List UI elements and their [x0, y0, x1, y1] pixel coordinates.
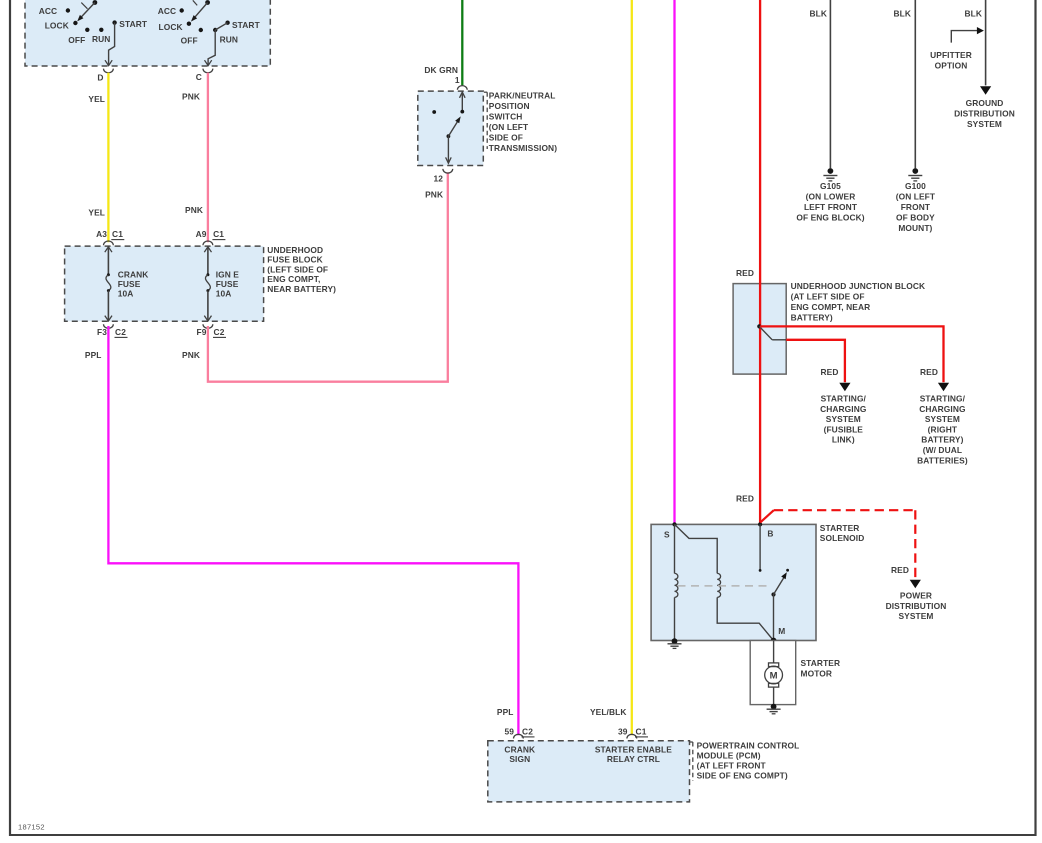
svg-text:SIDE OF ENG COMPT): SIDE OF ENG COMPT): [697, 770, 788, 780]
ground G100: [908, 168, 922, 181]
svg-text:CRANK: CRANK: [118, 270, 149, 280]
svg-text:(RIGHT: (RIGHT: [928, 424, 958, 434]
svg-text:DK GRN: DK GRN: [424, 65, 458, 75]
svg-text:(FUSIBLE: (FUSIBLE: [824, 424, 864, 434]
svg-text:START: START: [232, 20, 261, 30]
svg-text:(AT LEFT FRONT: (AT LEFT FRONT: [697, 760, 767, 770]
svg-text:FUSE: FUSE: [118, 279, 141, 289]
wire RED branch to starting/charging (fusible link): [786, 340, 850, 392]
svg-text:SOLENOID: SOLENOID: [820, 533, 865, 543]
svg-text:FRONT: FRONT: [901, 202, 931, 212]
ignition switch wafer 1 (ACC/LOCK/OFF/RUN/START): [39, 0, 148, 66]
svg-text:OF BODY: OF BODY: [896, 212, 935, 222]
svg-text:START: START: [119, 19, 148, 29]
label RED right branch: [920, 367, 938, 377]
starter motor ground: [767, 704, 781, 714]
label PARK/NEUTRAL POSITION SWITCH: [484, 91, 557, 154]
svg-text:LOCK: LOCK: [45, 21, 69, 31]
label G105: [796, 181, 864, 222]
svg-text:POSITION: POSITION: [489, 101, 530, 111]
label CRANK SIGN: [504, 745, 535, 765]
svg-text:YEL: YEL: [88, 208, 105, 218]
svg-text:F9: F9: [197, 327, 207, 337]
svg-text:SYSTEM: SYSTEM: [826, 414, 861, 424]
svg-text:GROUND: GROUND: [966, 98, 1004, 108]
label IGN E FUSE 10A: [216, 270, 240, 299]
powertrain control module block (dashed box): [488, 741, 690, 802]
wire PNK (fuse F9 to park/neutral switch 12): [208, 172, 448, 382]
svg-text:C1: C1: [636, 727, 647, 737]
svg-text:DISTRIBUTION: DISTRIBUTION: [886, 601, 947, 611]
svg-text:RED: RED: [891, 565, 909, 575]
label STARTER SOLENOID: [820, 523, 865, 543]
pin 1 connector: [455, 75, 467, 90]
wire BLK (to G100): [914, 0, 916, 168]
svg-text:(ON LEFT: (ON LEFT: [489, 122, 529, 132]
wire PPL (to starter solenoid S): [673, 0, 675, 524]
label PNK upper: [182, 92, 200, 102]
svg-text:SIGN: SIGN: [509, 754, 530, 764]
solenoid M terminal: [771, 626, 786, 643]
svg-text:STARTER ENABLE: STARTER ENABLE: [595, 745, 672, 755]
svg-text:G100: G100: [905, 181, 926, 191]
pin F3 C2 connector: [97, 324, 127, 337]
svg-text:PPL: PPL: [497, 707, 514, 717]
svg-text:FUSE: FUSE: [216, 279, 239, 289]
svg-text:BATTERY): BATTERY): [921, 435, 963, 445]
svg-text:C2: C2: [522, 727, 533, 737]
svg-text:RED: RED: [821, 367, 839, 377]
svg-text:(AT LEFT SIDE OF: (AT LEFT SIDE OF: [791, 292, 865, 302]
svg-text:1: 1: [455, 75, 460, 85]
svg-text:M: M: [778, 626, 785, 636]
solenoid pull-in coil: [675, 524, 678, 640]
svg-text:LEFT FRONT: LEFT FRONT: [804, 202, 858, 212]
solenoid fixed contact: [786, 569, 789, 572]
solenoid hold-in coil: [675, 524, 774, 640]
svg-text:ACC: ACC: [158, 6, 176, 16]
svg-text:OFF: OFF: [181, 36, 198, 46]
wire BLK (to G105): [829, 0, 831, 168]
label RED below junction block: [736, 494, 754, 504]
svg-text:ACC: ACC: [39, 6, 57, 16]
svg-text:SYSTEM: SYSTEM: [967, 119, 1002, 129]
label PPL upper: [85, 350, 102, 360]
ground G105: [823, 168, 837, 181]
svg-text:10A: 10A: [118, 289, 134, 299]
wire YEL/BLK (to PCM 39): [631, 0, 633, 735]
label BLK 2: [893, 9, 911, 19]
svg-text:CHARGING: CHARGING: [919, 404, 965, 414]
wire RED dashed (to power distribution system): [760, 510, 921, 588]
svg-text:59: 59: [504, 727, 514, 737]
svg-text:STARTING/: STARTING/: [920, 394, 966, 404]
label UNDERHOOD JUNCTION BLOCK: [791, 281, 926, 322]
svg-text:RUN: RUN: [92, 34, 110, 44]
svg-text:F3: F3: [97, 327, 107, 337]
svg-text:LINK): LINK): [832, 435, 855, 445]
label STARTING/CHARGING SYSTEM (FUSIBLE LINK): [820, 394, 866, 445]
label YEL lower: [88, 208, 105, 218]
svg-text:C2: C2: [115, 327, 126, 337]
label BLK 3: [964, 9, 982, 19]
svg-text:SWITCH: SWITCH: [489, 112, 523, 122]
svg-text:BATTERY): BATTERY): [791, 312, 833, 322]
solenoid B terminal: [758, 522, 773, 538]
svg-text:C: C: [196, 72, 202, 82]
solenoid coil ground: [668, 638, 682, 648]
svg-text:STARTER: STARTER: [801, 658, 841, 668]
svg-text:YEL: YEL: [88, 94, 105, 104]
label RED left branch: [821, 367, 839, 377]
svg-text:M: M: [770, 671, 778, 682]
svg-text:POWER: POWER: [900, 591, 932, 601]
ignition switch wafer 2 (ACC/LOCK/OFF/RUN/START): [158, 0, 261, 66]
svg-text:PNK: PNK: [425, 189, 443, 199]
svg-text:UNDERHOOD JUNCTION BLOCK: UNDERHOOD JUNCTION BLOCK: [791, 281, 926, 291]
solenoid S terminal: [664, 522, 677, 539]
svg-text:CHARGING: CHARGING: [820, 404, 866, 414]
svg-text:(LEFT SIDE OF: (LEFT SIDE OF: [267, 264, 328, 274]
pin 39 C1 connector: [618, 727, 648, 739]
svg-text:LOCK: LOCK: [159, 22, 183, 32]
svg-text:10A: 10A: [216, 289, 232, 299]
terminal D connector: [97, 69, 113, 83]
svg-text:SIDE OF: SIDE OF: [489, 133, 523, 143]
label POWER DISTRIBUTION SYSTEM: [886, 591, 947, 622]
label DK GRN: [424, 65, 458, 75]
svg-text:(W/ DUAL: (W/ DUAL: [923, 445, 962, 455]
underhood fuse block (dashed box): [65, 246, 264, 321]
label GROUND DISTRIBUTION SYSTEM: [954, 98, 1015, 129]
svg-text:STARTING/: STARTING/: [821, 394, 867, 404]
svg-text:BLK: BLK: [893, 9, 911, 19]
svg-text:187152: 187152: [18, 823, 45, 832]
svg-text:BATTERIES): BATTERIES): [917, 455, 968, 465]
label YEL upper: [88, 94, 105, 104]
svg-text:BLK: BLK: [809, 9, 827, 19]
label POWERTRAIN CONTROL MODULE: [689, 740, 799, 781]
svg-text:G105: G105: [820, 181, 841, 191]
svg-text:MOTOR: MOTOR: [801, 668, 833, 678]
starter motor enclosure: [750, 641, 796, 705]
svg-text:PNK: PNK: [185, 205, 203, 215]
svg-text:S: S: [664, 530, 670, 540]
svg-text:C1: C1: [112, 229, 123, 239]
svg-text:RUN: RUN: [220, 35, 238, 45]
solenoid plunger link (dashed): [678, 585, 773, 587]
svg-text:YEL/BLK: YEL/BLK: [590, 707, 627, 717]
svg-text:C2: C2: [214, 327, 225, 337]
svg-text:PNK: PNK: [182, 92, 200, 102]
ignition switch block (dashed connector box): [25, 0, 270, 66]
svg-text:SYSTEM: SYSTEM: [898, 611, 933, 621]
wire DK GRN (to park/neutral switch pin 1): [461, 0, 463, 85]
svg-text:PPL: PPL: [85, 350, 102, 360]
label RED above junction block: [736, 268, 754, 278]
svg-text:BLK: BLK: [964, 9, 982, 19]
svg-text:ENG COMPT, NEAR: ENG COMPT, NEAR: [791, 302, 871, 312]
wire RED branch to starting/charging (right battery): [760, 326, 949, 391]
pin 59 C2 connector: [504, 727, 534, 739]
svg-text:PARK/NEUTRAL: PARK/NEUTRAL: [489, 91, 556, 101]
label PNK below F9: [182, 350, 200, 360]
label RED dashed: [891, 565, 909, 575]
svg-text:39: 39: [618, 727, 628, 737]
wire PPL (fuse F3 to PCM 59): [108, 326, 518, 735]
upfitter option stub arrow: [930, 27, 984, 70]
wire BLK (to ground distribution): [980, 0, 991, 95]
starter motor symbol: [765, 641, 783, 705]
label STARTER ENABLE RELAY CTRL: [595, 745, 672, 765]
solenoid moving contact arm: [771, 571, 789, 641]
pin A9 C1 connector: [196, 229, 226, 245]
svg-text:MOUNT): MOUNT): [898, 223, 932, 233]
svg-text:(ON LEFT: (ON LEFT: [896, 192, 936, 202]
svg-text:UNDERHOOD: UNDERHOOD: [267, 245, 323, 255]
label YEL/BLK: [590, 707, 627, 717]
svg-text:TRANSMISSION): TRANSMISSION): [489, 143, 557, 153]
diagram number 187152: [18, 823, 45, 832]
starter solenoid box: [651, 524, 816, 640]
svg-text:D: D: [97, 73, 103, 83]
svg-text:OPTION: OPTION: [935, 60, 968, 70]
svg-text:A9: A9: [196, 229, 207, 239]
underhood junction block (solid box): [733, 284, 786, 375]
wire YEL (ignition D to fuse A3): [107, 73, 109, 243]
svg-text:CRANK: CRANK: [504, 745, 535, 755]
svg-text:PNK: PNK: [182, 350, 200, 360]
label STARTING/CHARGING SYSTEM (RIGHT BATTERY): [917, 394, 968, 466]
terminal C connector: [196, 69, 213, 82]
svg-text:POWERTRAIN CONTROL: POWERTRAIN CONTROL: [697, 740, 800, 750]
svg-text:RED: RED: [920, 367, 938, 377]
svg-text:A3: A3: [96, 229, 107, 239]
wire PNK (ignition C to fuse A9): [207, 73, 209, 243]
pin F9 C2 connector: [197, 324, 226, 337]
pin A3 C1 connector: [96, 229, 124, 245]
label CRANK FUSE 10A: [118, 270, 149, 299]
svg-text:DISTRIBUTION: DISTRIBUTION: [954, 108, 1015, 118]
label PPL lower: [497, 707, 514, 717]
fuse IGN E FUSE 10A: [204, 247, 211, 321]
label PNK lower: [185, 205, 203, 215]
label STARTER MOTOR: [801, 658, 841, 678]
svg-text:SYSTEM: SYSTEM: [925, 414, 960, 424]
park/neutral switch contacts: [432, 92, 465, 163]
svg-text:OFF: OFF: [68, 35, 85, 45]
label UNDERHOOD FUSE BLOCK: [267, 245, 336, 294]
label PNK at pin 12: [425, 189, 443, 199]
svg-text:UPFITTER: UPFITTER: [930, 50, 972, 60]
fuse CRANK FUSE 10A: [105, 247, 112, 321]
svg-text:C1: C1: [213, 229, 224, 239]
pin 12 connector: [433, 169, 452, 183]
wire RED (battery feed to solenoid B): [759, 0, 761, 524]
svg-text:IGN E: IGN E: [216, 270, 240, 280]
svg-text:OF ENG BLOCK): OF ENG BLOCK): [796, 212, 864, 222]
svg-text:12: 12: [433, 173, 443, 183]
svg-text:ENG COMPT,: ENG COMPT,: [267, 274, 320, 284]
svg-text:RED: RED: [736, 268, 754, 278]
svg-text:RED: RED: [736, 494, 754, 504]
solenoid B contact: [759, 524, 762, 571]
svg-text:MODULE (PCM): MODULE (PCM): [697, 750, 761, 760]
svg-text:STARTER: STARTER: [820, 523, 860, 533]
label G100: [896, 181, 936, 233]
label BLK 1: [809, 9, 827, 19]
park/neutral position switch (dashed box): [418, 91, 484, 165]
svg-text:NEAR BATTERY): NEAR BATTERY): [267, 284, 336, 294]
svg-text:B: B: [767, 529, 773, 539]
svg-text:RELAY CTRL: RELAY CTRL: [607, 754, 660, 764]
svg-text:FUSE BLOCK: FUSE BLOCK: [267, 255, 322, 265]
svg-text:(ON LOWER: (ON LOWER: [806, 192, 856, 202]
junction block node: [757, 324, 786, 340]
